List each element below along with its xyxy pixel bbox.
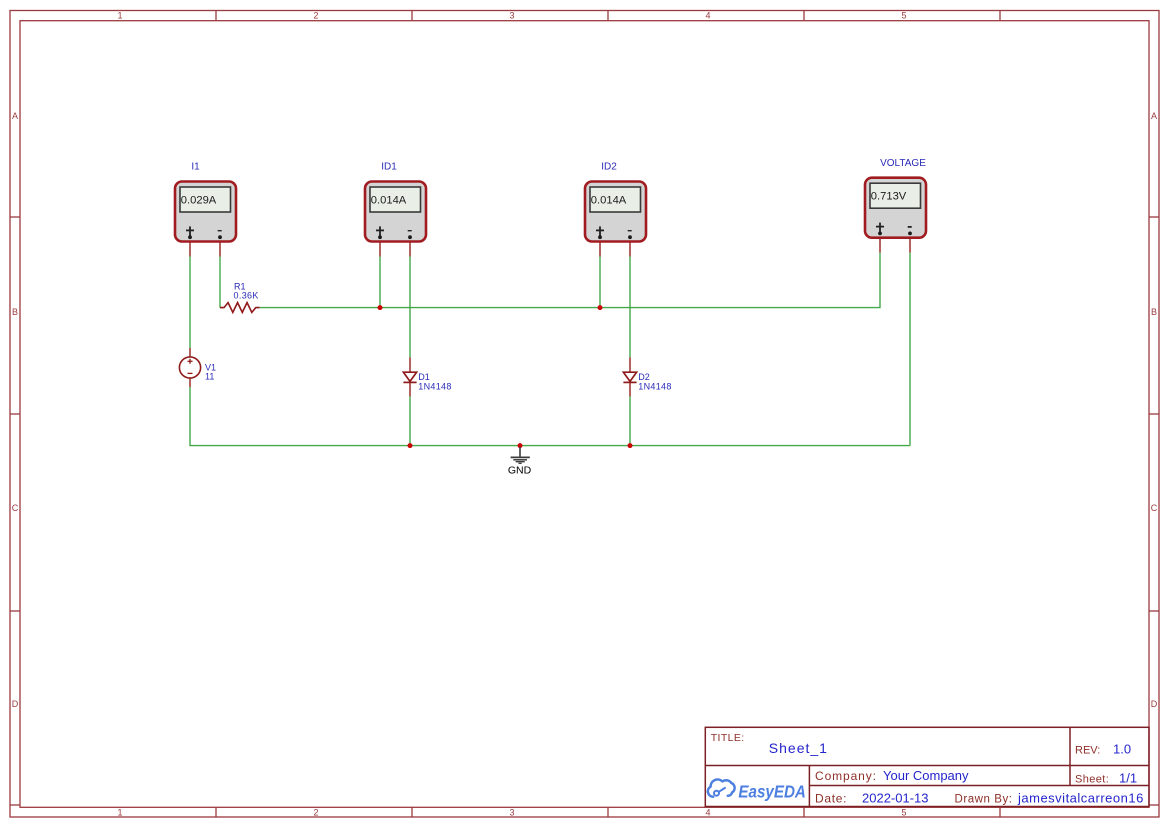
svg-text:B: B (1151, 307, 1157, 317)
svg-text:1: 1 (117, 11, 122, 21)
svg-text:3: 3 (509, 11, 514, 21)
svg-text:2: 2 (313, 807, 318, 817)
svg-text:VOLTAGE: VOLTAGE (880, 158, 926, 169)
svg-text:I1: I1 (191, 162, 200, 173)
svg-text:A: A (1151, 111, 1157, 121)
svg-text:1N4148: 1N4148 (418, 381, 451, 391)
svg-text:TITLE:: TITLE: (711, 732, 745, 744)
svg-text:11: 11 (205, 371, 214, 381)
svg-text:2022-01-13: 2022-01-13 (862, 790, 929, 805)
svg-text:Sheet:: Sheet: (1075, 774, 1109, 786)
svg-text:jamesvitalcarreon16: jamesvitalcarreon16 (1017, 790, 1144, 805)
svg-text:2: 2 (313, 11, 318, 21)
svg-text:Sheet_1: Sheet_1 (769, 740, 828, 756)
svg-text:0.36K: 0.36K (234, 290, 259, 300)
svg-text:1/1: 1/1 (1119, 771, 1137, 786)
svg-text:1N4148: 1N4148 (638, 381, 671, 391)
svg-text:A: A (12, 111, 18, 121)
svg-text:1: 1 (117, 807, 122, 817)
svg-text:ID2: ID2 (601, 162, 617, 173)
svg-text:4: 4 (705, 807, 710, 817)
svg-text:0.014A: 0.014A (591, 194, 627, 206)
svg-text:REV:: REV: (1075, 745, 1100, 757)
svg-text:Date:: Date: (815, 792, 847, 806)
svg-text:C: C (1151, 503, 1158, 513)
svg-text:5: 5 (901, 11, 906, 21)
svg-text:GND: GND (508, 464, 532, 476)
svg-text:ID1: ID1 (381, 162, 397, 173)
svg-text:D: D (1151, 699, 1158, 709)
svg-text:3: 3 (509, 807, 514, 817)
svg-text:0.014A: 0.014A (371, 194, 407, 206)
svg-text:Company:: Company: (815, 769, 877, 783)
svg-text:4: 4 (705, 11, 710, 21)
svg-text:0.029A: 0.029A (181, 194, 217, 206)
svg-text:C: C (12, 503, 19, 513)
svg-text:D: D (12, 699, 19, 709)
svg-text:Drawn By:: Drawn By: (955, 793, 1013, 805)
svg-text:Your Company: Your Company (883, 768, 969, 783)
svg-text:1.0: 1.0 (1113, 742, 1131, 757)
svg-text:0.713V: 0.713V (871, 191, 907, 203)
svg-text:5: 5 (901, 807, 906, 817)
svg-text:B: B (12, 307, 18, 317)
svg-text:EasyEDA: EasyEDA (738, 782, 806, 802)
